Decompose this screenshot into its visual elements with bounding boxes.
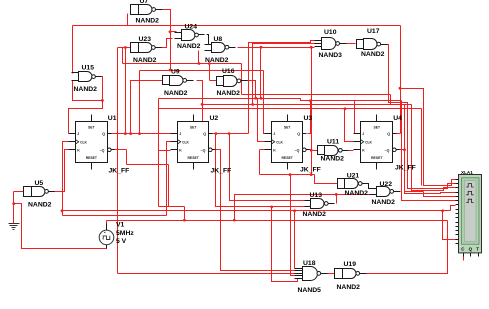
wire analyzer P3 feed drop x=411.2: [412, 105, 456, 191]
svg-text:NAND2: NAND2: [337, 284, 361, 291]
wire U22.B riser x=234.3: [235, 195, 371, 221]
XLA1 input pins: [456, 179, 459, 181]
wire y=164.5 from x=127: [127, 164, 169, 166]
wire x=311.2 drop to U11 tie: [311, 48, 313, 151]
wire U1.Q line to U2.J: [112, 133, 171, 135]
wire U18.1 feed drop x=294.6: [294, 211, 296, 269]
node y210.8 P15 branch: [441, 209, 444, 212]
svg-text:NAND2: NAND2: [372, 199, 396, 206]
svg-text:NAND2: NAND2: [74, 86, 98, 93]
wire y=94.5 long horizontal to analyzer drop: [242, 94, 391, 96]
svg-text:U13: U13: [310, 192, 323, 199]
svg-text:T: T: [476, 247, 479, 252]
svg-text:U22: U22: [380, 181, 393, 188]
svg-text:U24: U24: [185, 23, 198, 30]
wire y=63.5 horizontal line: [123, 63, 242, 65]
svg-text:U18: U18: [303, 260, 316, 267]
wire net1 U4.Q vertical x=400 from bus: [400, 26, 402, 134]
wire U16 output descent x=255.8: [246, 81, 256, 99]
node U15 loop junction: [101, 99, 104, 102]
nand gate U9: [163, 76, 170, 85]
wire U7 inputs tie drop to bus: [127, 14, 129, 26]
svg-text:JK_FF: JK_FF: [109, 167, 130, 174]
svg-text:Q: Q: [297, 132, 300, 136]
node bus B x=184.4: [183, 219, 186, 222]
node U16 feed junction: [208, 62, 211, 65]
wire U23 input feed horizontal: [118, 47, 131, 49]
svg-text:Q: Q: [387, 132, 390, 136]
wire U2.K feed horizontal: [159, 150, 171, 152]
wire x=158.2 drop from y=98.2 to U2.K row: [158, 99, 160, 151]
svg-text:SET: SET: [373, 126, 381, 130]
node net1 branch y=88.3: [399, 87, 402, 90]
wire U2.CLK riser: [167, 142, 171, 216]
flip-flop U4 (JK_FF): [361, 122, 393, 163]
svg-text:JK_FF: JK_FF: [395, 164, 416, 171]
wire U18.5 under-loop: [272, 207, 298, 282]
node U3.~Q junction: [310, 149, 313, 152]
node U7out-y70 junction: [169, 69, 172, 72]
wire net1 branch to x=423.9: [401, 89, 456, 186]
node U10.B junction: [251, 103, 254, 106]
wire bus Q4 top horizontal y=25.5: [73, 25, 401, 27]
svg-text:JK_FF: JK_FF: [300, 166, 321, 173]
node U4.~Q junction: [403, 148, 406, 151]
svg-text:CLK: CLK: [276, 140, 283, 144]
wire U13.A feed drop x=229.1: [230, 134, 305, 201]
nand gate U8: [205, 44, 212, 46]
svg-text:U7: U7: [140, 0, 149, 5]
svg-text:NAND2: NAND2: [177, 43, 201, 50]
nand gate U19: [335, 269, 343, 279]
svg-text:K: K: [77, 148, 80, 152]
wire U10 output to U17 tie: [347, 43, 356, 45]
ground symbol: [9, 223, 20, 225]
nand gate U17: [357, 40, 364, 49]
svg-text:CLK: CLK: [80, 140, 87, 144]
wire U16 tie feed riser x=209.3: [209, 64, 211, 81]
node x=311.2 junction: [310, 46, 313, 49]
wire analyzer P7 feed riser: [451, 206, 456, 211]
svg-text:U16: U16: [222, 68, 235, 75]
logic analyzer XLA1: [459, 175, 482, 253]
svg-text:~Q: ~Q: [201, 148, 206, 152]
wire U4.CLK feed riser x=345: [345, 109, 354, 142]
wire U1.~Q line: [111, 149, 127, 151]
nand gate U21: [338, 179, 345, 189]
flip-flop U1 (JK_FF): [76, 122, 108, 163]
node y98 x261 junction: [260, 97, 263, 100]
wire U3.CLK feed riser x=257.6: [258, 99, 265, 142]
svg-text:U8: U8: [214, 36, 223, 43]
svg-text:NAND2: NAND2: [164, 90, 188, 97]
wire U9 output long line y=104.4: [197, 81, 412, 105]
wire U3.J feed riser x=263.5: [264, 71, 265, 134]
wire U13.B feed drop x=215.9: [216, 134, 305, 207]
svg-text:J: J: [179, 132, 181, 136]
wire U17 output down analyzer feed net2: [384, 45, 456, 189]
wire stub below C pin: [463, 257, 465, 261]
svg-text:CLK: CLK: [182, 140, 189, 144]
svg-text:NAND2: NAND2: [361, 51, 385, 58]
node U24.A junction: [169, 30, 172, 33]
node U23 feed junction: [124, 46, 127, 49]
wire riser x=139.5 from y=70 to U1.Q line: [139, 71, 141, 134]
wire long line y=108.8: [159, 108, 422, 110]
nand gate U16: [217, 77, 224, 86]
svg-text:RESET: RESET: [86, 156, 98, 160]
wire U11 tie feed: [312, 150, 318, 152]
svg-text:J: J: [273, 132, 275, 136]
svg-text:SET: SET: [88, 126, 96, 130]
svg-text:K: K: [179, 148, 182, 152]
node y210.8 U18.1 junction: [293, 209, 296, 212]
svg-text:XLA1: XLA1: [461, 170, 473, 175]
nand gate U7: [131, 5, 139, 15]
wire U19 output to bus drop: [362, 273, 366, 275]
node y210.8 left end junction: [61, 209, 64, 212]
wire staircase y=206.4: [159, 206, 185, 208]
wire x=290 drop to U18.4: [291, 175, 295, 276]
wire V1 plus riser to clock bus B: [106, 221, 108, 224]
wire y=98.2 long horizontal with jog at x=300.7: [159, 99, 402, 101]
svg-text:NAND2: NAND2: [28, 201, 52, 208]
node U18.5 branch junction: [270, 206, 273, 209]
node U4.CLK riser junction: [344, 107, 347, 110]
svg-text:U10: U10: [324, 29, 337, 36]
wire clock bus B y=220.1: [107, 220, 448, 222]
svg-text:J: J: [362, 132, 364, 136]
wire U11 output to U4.K: [348, 150, 354, 152]
svg-text:U5: U5: [35, 180, 44, 187]
wire x=421.2 drop to bundle: [421, 109, 423, 186]
nand gate U5: [24, 187, 32, 197]
node ground junction: [12, 202, 15, 205]
wire y=70 horizontal line: [140, 70, 264, 72]
wire U2.Q riser to U10.A: [249, 41, 315, 134]
nand gate U24: [175, 32, 182, 34]
wire U3.Q riser to y=100.7 line: [308, 101, 311, 134]
svg-text:U4: U4: [393, 115, 402, 122]
wire U5 input from ground: [14, 191, 24, 193]
wire y=210.8 long bus: [63, 210, 451, 212]
svg-text:Q: Q: [102, 132, 105, 136]
node U16 out junction: [254, 97, 257, 100]
wire ground branch to V1 minus: [14, 204, 107, 249]
node U2.Q junction x=215.9: [215, 132, 218, 135]
wire x=127 up to U1.~Q row: [126, 150, 128, 165]
svg-text:SET: SET: [284, 126, 292, 130]
wire U3.K feed riser x=259.1: [260, 149, 265, 151]
wire U2.~Q to U18.2: [215, 150, 295, 271]
svg-text:U17: U17: [367, 28, 380, 35]
node U3.~Q y174.6 junction: [310, 173, 313, 176]
node y174.6 x=290 junction: [289, 173, 292, 176]
svg-text:U19: U19: [344, 261, 357, 268]
wire U4.Q stub connect: [397, 133, 401, 135]
wire analyzer P6 drop x=401.2: [402, 101, 456, 201]
wire U18 input 3 horizontal y=273.4: [118, 273, 295, 275]
svg-text:CLK: CLK: [365, 140, 372, 144]
nand gate U11: [318, 146, 325, 155]
node U1.Q junction x=139.5: [138, 132, 141, 135]
wire U16 tie feed horizontal: [210, 80, 217, 82]
nand gate U23: [131, 43, 139, 53]
svg-text:NAND3: NAND3: [319, 52, 343, 59]
wire long vertical x=117.8 down to U18 input 3: [117, 48, 119, 274]
svg-text:NAND2: NAND2: [136, 17, 160, 24]
svg-text:~Q: ~Q: [295, 148, 300, 152]
nand gate U13: [305, 200, 311, 202]
svg-text:U21: U21: [347, 173, 360, 180]
flip-flop U2 (JK_FF): [178, 122, 209, 163]
wire U21 tie feed from y=174.6 line: [315, 175, 338, 184]
svg-text:NAND5: NAND5: [298, 287, 322, 294]
svg-text:RESET: RESET: [187, 156, 199, 160]
svg-text:J: J: [77, 132, 79, 136]
svg-text:~Q: ~Q: [100, 148, 105, 152]
svg-text:U1: U1: [108, 115, 117, 122]
wire riser x=122.7 up to U23 feed: [122, 48, 124, 64]
nand gate U10 (3-input): [315, 40, 322, 42]
svg-text:Q: Q: [203, 132, 206, 136]
wire U3.~Q net y=174.6: [260, 174, 315, 176]
svg-text:NAND2: NAND2: [133, 57, 157, 64]
flip-flop U3 (JK_FF): [272, 122, 303, 163]
node bus B x=234.3: [233, 219, 236, 222]
wire U4.~Q stub to net4 vertical: [397, 149, 405, 151]
wire U15 net to U1.J: [69, 101, 103, 134]
wire bus Q4 top: vertical from U15.A up: [72, 26, 74, 74]
svg-text:SET: SET: [190, 126, 198, 130]
svg-text:~Q: ~Q: [385, 148, 390, 152]
wire U24 output to U8.A: [207, 35, 212, 45]
wire bus B drop to U19 output net: [366, 221, 448, 274]
wire x=261 drop to y=98.2 line: [260, 48, 262, 99]
wire y210.8 drop to analyzer P15: [443, 211, 456, 240]
nand gate U15: [72, 72, 79, 74]
svg-text:U9: U9: [171, 69, 180, 76]
node U3.Q junction: [309, 99, 312, 102]
svg-text:NAND2: NAND2: [321, 156, 345, 163]
wire U21 output jog to U22.A: [362, 184, 371, 189]
wire analyzer P4 feed drop x=404.5: [405, 105, 456, 194]
wire U9 tie feed from U1.Q: [131, 81, 163, 134]
svg-text:U11: U11: [327, 138, 339, 145]
wire staircase x=184.4 down to clock bus B: [184, 207, 186, 221]
wire U22 output to analyzer P5: [405, 191, 424, 193]
wire staircase x=168 up to y=164.5: [168, 165, 170, 207]
wire U5 output up to U1.K: [55, 150, 69, 192]
node U1.Q junction x=125.3: [124, 132, 127, 135]
wire U7 output continues down to y=70 line: [170, 32, 172, 71]
svg-text:U23: U23: [139, 36, 152, 43]
svg-text:U2: U2: [210, 115, 219, 122]
svg-text:NAND2: NAND2: [217, 90, 241, 97]
wire drop to U2 box top: [202, 105, 204, 122]
svg-text:U15: U15: [82, 65, 95, 72]
node x=261 junction on U8 out: [260, 46, 263, 49]
node U9 line to U2 top junction: [201, 103, 204, 106]
wire U1.Q net riser x=125.3 up to U23 input: [125, 48, 127, 134]
wire U15 output loop down: [73, 77, 103, 101]
svg-text:JK_FF: JK_FF: [211, 167, 232, 174]
node U13 out junction: [335, 193, 338, 196]
svg-text:NAND2: NAND2: [205, 57, 229, 64]
wire U18 output to U19 tie: [328, 273, 335, 275]
wire ground riser: [13, 192, 15, 224]
wire U4.J drop x=354: [354, 101, 355, 134]
svg-text:NAND2: NAND2: [303, 211, 327, 218]
node U2.Q junction x=229.1: [228, 132, 231, 135]
svg-text:U3: U3: [304, 115, 313, 122]
nand gate U22: [370, 188, 377, 190]
wire U8.B riser from y=63.5 line: [198, 51, 200, 64]
svg-text:V1: V1: [116, 222, 125, 229]
svg-text:5MHz: 5MHz: [116, 230, 134, 237]
wire U1.CLK riser from clock line A: [63, 142, 69, 216]
svg-text:K: K: [362, 148, 365, 152]
XLA1 waveform glyphs: [466, 184, 473, 187]
wire net3 drop x=390 joining y=104.4 line: [390, 95, 392, 105]
wire U8 output to U10.C: [238, 47, 315, 49]
node U8.B junction: [198, 62, 201, 65]
nand gate U18 (5-input): [295, 268, 303, 270]
wire U13 output riser to y=194.4 line: [336, 195, 338, 204]
svg-text:RESET: RESET: [281, 156, 293, 160]
wire U23 output up to U24.B: [159, 39, 173, 48]
svg-text:K: K: [273, 148, 276, 152]
wire U3.~Q stub down: [310, 149, 312, 151]
wire U7 output down to U24.A: [162, 10, 177, 32]
wire clock line A y=215.5: [63, 215, 167, 217]
svg-text:NAND2: NAND2: [345, 190, 369, 197]
svg-text:RESET: RESET: [371, 156, 383, 160]
svg-text:5 V: 5 V: [116, 238, 127, 245]
wire x=241.9 from y=63.5 down to y=94.5: [241, 64, 243, 95]
wire x=159.4 drop to staircase: [158, 151, 160, 207]
wire U10.B feed riser x=252.7: [253, 44, 315, 105]
clock source V1: [99, 230, 114, 245]
node U1.Q junction x=130.7: [129, 132, 132, 135]
wire U2.Q line: [213, 133, 249, 135]
svg-text:Q: Q: [469, 247, 473, 252]
